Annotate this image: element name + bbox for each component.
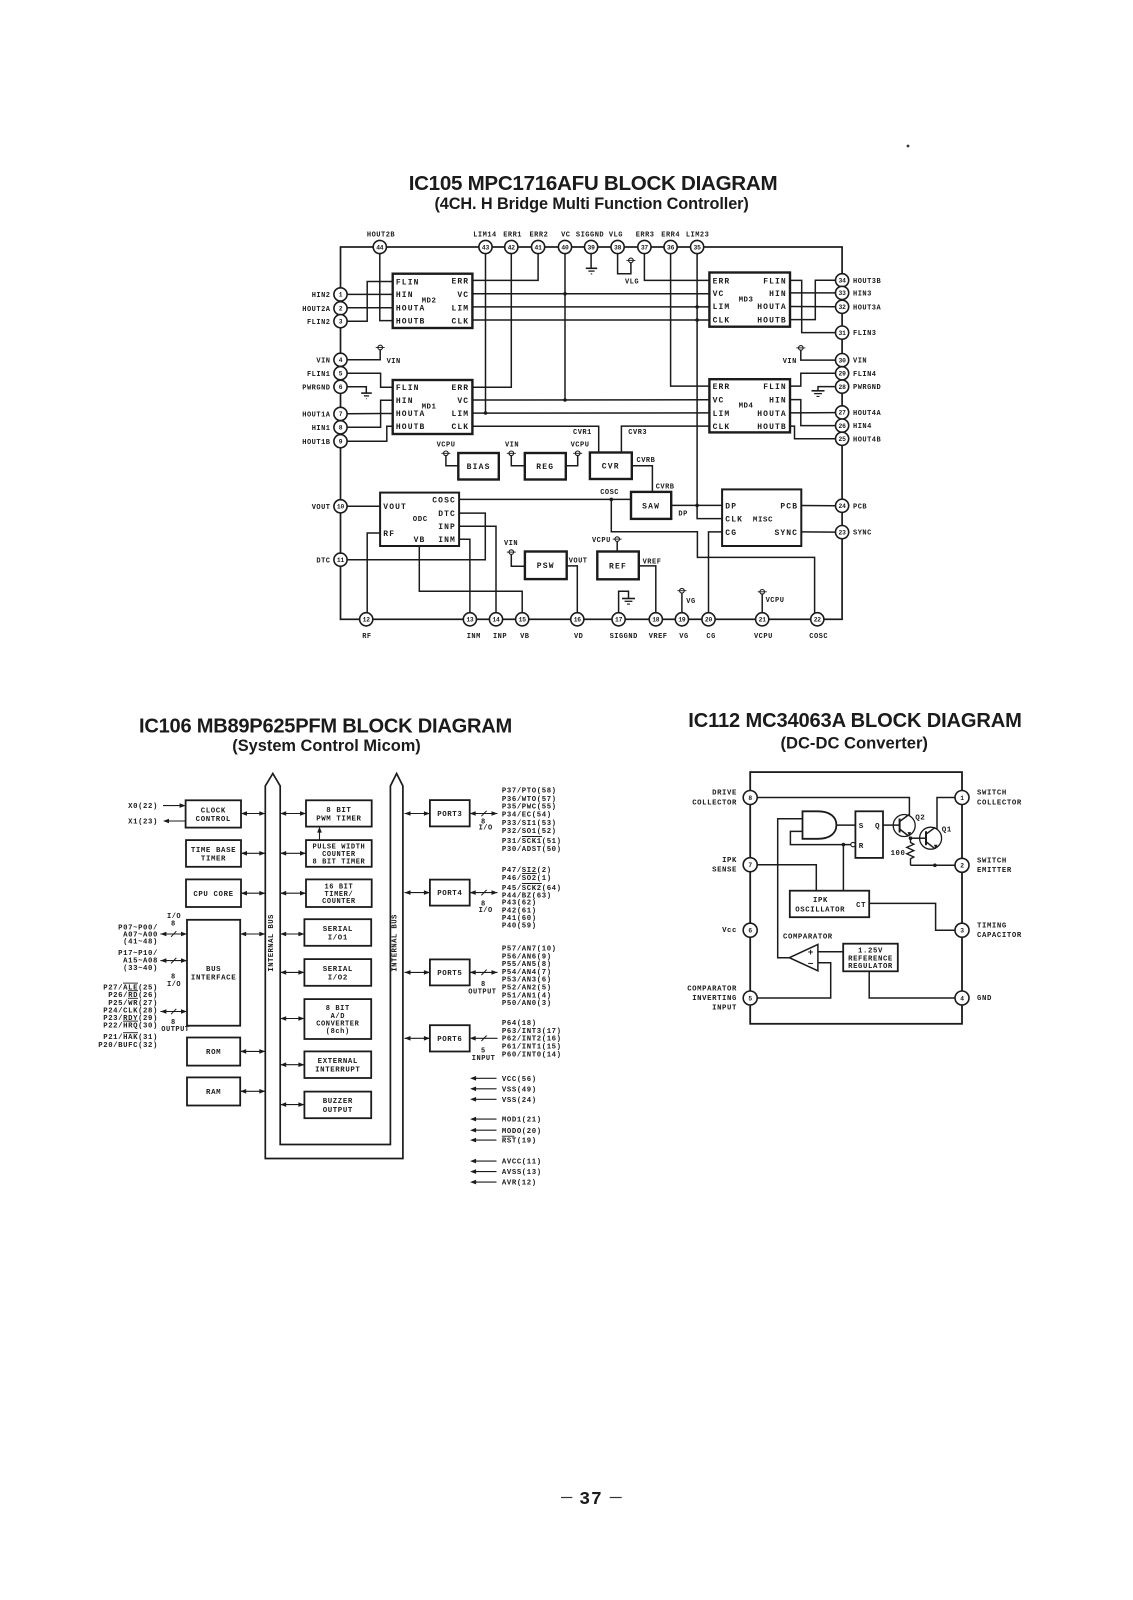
svg-text:PORT4: PORT4	[437, 890, 462, 898]
junction LIM14	[484, 411, 488, 415]
wire MD1.CLK-CVR (CVR1)	[472, 426, 598, 452]
svg-text:FLIN3: FLIN3	[853, 330, 877, 338]
supply pin AVR(12)	[470, 1180, 537, 1188]
svg-text:VLG: VLG	[609, 232, 623, 240]
pin 10 (VOUT)	[312, 500, 347, 513]
ground pin6 PWRGND	[347, 387, 372, 399]
wire pin5-MD1.FLIN	[347, 373, 393, 387]
block TIME BASE TIMER	[186, 840, 241, 867]
svg-text:OUTPUT: OUTPUT	[468, 989, 496, 997]
svg-text:16: 16	[574, 617, 582, 624]
svg-text:EMITTER: EMITTER	[977, 867, 1012, 875]
svg-text:12: 12	[363, 617, 371, 624]
pin label P54/AN4(7)	[502, 969, 552, 977]
block SAW	[631, 492, 671, 519]
block PORT4	[430, 880, 470, 906]
svg-text:2: 2	[339, 306, 343, 313]
svg-text:SIGGND: SIGGND	[576, 232, 604, 240]
svg-text:HIN4: HIN4	[853, 423, 872, 431]
svg-text:44: 44	[376, 244, 384, 251]
pin label P45/SCK2(64)	[502, 884, 562, 894]
svg-text:ODC: ODC	[413, 516, 428, 524]
svg-text:MODO(20): MODO(20)	[502, 1128, 542, 1136]
svg-text:P61/INT1(15): P61/INT1(15)	[502, 1044, 562, 1052]
wire MD3.FLIN-pin31	[790, 280, 836, 332]
svg-text:PWM TIMER: PWM TIMER	[316, 815, 361, 823]
junction VC/MD1	[563, 398, 567, 402]
arrow PORT5 io	[468, 970, 497, 997]
pin 37 (ERR3)	[636, 232, 655, 254]
wire VC bus MD1-MD4	[472, 399, 709, 401]
wire CLK bus MD2-MD3	[472, 319, 709, 321]
svg-text:CVR1: CVR1	[573, 429, 592, 437]
svg-text:6: 6	[339, 384, 343, 391]
power VCPU at BIAS	[437, 441, 459, 465]
arrow bus-PULSE	[280, 851, 306, 856]
wire MD4.FLIN-pin29	[790, 373, 836, 386]
svg-text:HOUTB: HOUTB	[396, 318, 426, 327]
pin 16 (VD)	[571, 613, 584, 641]
pin label P42(61)	[502, 907, 537, 915]
pin 12 (RF)	[360, 613, 373, 641]
svg-text:IC105 MPC1716AFU BLOCK DIAGRAM: IC105 MPC1716AFU BLOCK DIAGRAM	[409, 172, 778, 195]
wire comparator plus - reference	[818, 951, 843, 953]
svg-text:HOUTB: HOUTB	[757, 423, 787, 432]
block PORT5	[430, 959, 470, 985]
block PORT3	[430, 800, 470, 826]
pin label P55/AN5(8)	[502, 961, 552, 969]
resistor 100	[891, 838, 914, 865]
svg-text:I/O: I/O	[167, 981, 181, 989]
svg-text:VLG: VLG	[625, 279, 639, 287]
arrow PORT4 io	[470, 890, 498, 915]
svg-text:(41~48): (41~48)	[123, 938, 158, 946]
svg-text:39: 39	[588, 244, 596, 251]
arrow bus-EXTINT	[280, 1062, 304, 1067]
pin 31 (FLIN3)	[836, 326, 877, 339]
svg-text:CLOCK: CLOCK	[201, 807, 226, 815]
svg-text:ERR: ERR	[713, 383, 731, 392]
block SERIAL I/O2	[304, 959, 371, 986]
svg-text:CPU CORE: CPU CORE	[193, 891, 233, 899]
pin 5 (FLIN1)	[307, 367, 347, 380]
pin label P35/PWC(55)	[502, 803, 557, 811]
block ROM	[187, 1038, 240, 1066]
pin label P50/AN0(3)	[502, 1000, 552, 1008]
svg-text:DRIVE: DRIVE	[712, 790, 737, 798]
pin 6 (Vcc)	[722, 923, 757, 937]
wire ODC.VB-pin15	[419, 546, 522, 613]
svg-text:ERR4: ERR4	[661, 232, 680, 240]
pin label P61/INT1(15)	[502, 1044, 562, 1052]
svg-text:FLIN4: FLIN4	[853, 371, 877, 379]
svg-text:(8ch): (8ch)	[326, 1028, 350, 1036]
svg-text:29: 29	[839, 371, 847, 378]
wire COSC to pin22	[611, 499, 814, 612]
wire R-pin2	[911, 864, 956, 866]
svg-text:P64(18): P64(18)	[502, 1020, 537, 1028]
svg-text:HOUTA: HOUTA	[757, 410, 787, 419]
arrow ROM-bus	[240, 1049, 265, 1054]
svg-text:18: 18	[652, 617, 660, 624]
svg-text:CONTROL: CONTROL	[196, 816, 231, 824]
stray page dot	[907, 145, 910, 148]
block BUZZER OUTPUT	[304, 1092, 371, 1119]
svg-text:P22/HRQ(30): P22/HRQ(30)	[103, 1023, 158, 1031]
svg-text:HOUTA: HOUTA	[396, 410, 426, 419]
svg-text:LIM14: LIM14	[473, 232, 497, 240]
power VCPU at REF	[592, 537, 622, 552]
wire MD4.CLK-CVR (CVR3)	[621, 426, 709, 452]
svg-text:CG: CG	[725, 529, 737, 538]
svg-text:ERR1: ERR1	[503, 232, 522, 240]
svg-text:FLIN: FLIN	[763, 277, 787, 286]
pin 1 (SWITCH COLLECTOR)	[955, 790, 1022, 808]
svg-text:8: 8	[339, 425, 343, 432]
svg-text:INPUT: INPUT	[472, 1055, 496, 1063]
wire AND in2 - R node	[790, 831, 851, 844]
svg-text:MD1: MD1	[422, 404, 437, 412]
svg-text:PWRGND: PWRGND	[302, 384, 330, 392]
pin label P23/RDY(29)	[103, 1015, 158, 1023]
arrow bus-AD	[280, 1016, 304, 1021]
svg-text:34: 34	[839, 278, 847, 285]
block MD2	[393, 274, 473, 328]
svg-text:VB: VB	[520, 633, 530, 641]
block RAM	[187, 1077, 240, 1105]
svg-text:19: 19	[678, 617, 686, 624]
svg-text:100: 100	[891, 850, 906, 858]
pin label P43(62)	[502, 900, 537, 908]
block SERIAL I/O1	[304, 919, 371, 946]
svg-text:31: 31	[839, 330, 847, 337]
junction VC/MD2	[563, 292, 567, 296]
svg-text:VG: VG	[686, 598, 695, 606]
internal bus towers	[265, 774, 403, 1159]
pin 28 (PWRGND)	[836, 380, 882, 393]
ground pin39 SIGGND	[586, 254, 597, 274]
svg-text:4: 4	[960, 995, 964, 1002]
svg-text:14: 14	[492, 617, 500, 624]
pin label P22/HRQ(30)	[103, 1021, 158, 1031]
pin label P33/SI1(53)	[502, 820, 557, 828]
svg-text:5: 5	[748, 995, 752, 1002]
junction R node	[842, 843, 846, 847]
wire pin7-MD1.HOUTA	[347, 413, 393, 415]
pin label P53/AN3(6)	[502, 977, 552, 985]
svg-text:I/O: I/O	[479, 825, 493, 833]
pin label P41(60)	[502, 915, 537, 923]
wire MD3.HIN-pin33	[790, 292, 836, 294]
wire pin36-MD4.ERR	[671, 254, 710, 387]
wire MD4.HIN-pin26	[790, 400, 836, 426]
pin label P44/BZ(63)	[502, 893, 552, 901]
svg-text:PORT3: PORT3	[437, 811, 462, 819]
svg-text:13: 13	[466, 617, 474, 624]
pin 39 (SIGGND)	[576, 232, 604, 254]
SR latch	[851, 811, 883, 858]
svg-text:1.25V: 1.25V	[858, 948, 883, 956]
pin label P47/SI2(2)	[502, 867, 552, 875]
svg-text:VC: VC	[457, 291, 469, 300]
pin 22 (COSC)	[809, 613, 828, 641]
arrow PORT3 io	[470, 811, 498, 833]
wire pin10-ODC.VOUT	[347, 505, 380, 507]
svg-text:2: 2	[960, 863, 964, 870]
svg-text:INTERNAL BUS: INTERNAL BUS	[392, 914, 400, 972]
wire MD4.HOUTB-pin25	[790, 426, 836, 439]
svg-text:33: 33	[839, 290, 847, 297]
pin 2 (HOUT2A)	[302, 302, 347, 315]
pin 38 (VLG)	[609, 232, 624, 254]
wire LIM bus MD1-MD4	[472, 412, 709, 414]
svg-text:VSS(49): VSS(49)	[502, 1086, 537, 1094]
svg-text:RAM: RAM	[206, 1089, 221, 1097]
wire AND out - S	[836, 824, 855, 826]
svg-text:VCPU: VCPU	[766, 597, 785, 605]
svg-text:FLIN: FLIN	[396, 278, 420, 287]
svg-text:VCPU: VCPU	[571, 441, 590, 449]
svg-text:VC: VC	[713, 290, 725, 299]
svg-text:IPK: IPK	[722, 857, 737, 865]
wire Q - Q2 base	[883, 824, 893, 826]
pin label P46/SO2(1)	[502, 874, 552, 884]
svg-text:HOUT4A: HOUT4A	[853, 410, 882, 418]
svg-text:VC: VC	[457, 397, 469, 406]
arrow bus-PORT4	[405, 890, 430, 895]
pin 3 (TIMING CAPACITOR)	[955, 922, 1022, 940]
wire MD3.HOUTB-pin34	[790, 280, 836, 319]
pin label P31/SCK1(51)	[502, 837, 562, 847]
svg-text:VC: VC	[561, 232, 570, 240]
svg-text:REG: REG	[536, 463, 554, 472]
svg-text:CLK: CLK	[725, 516, 743, 525]
svg-text:HOUTA: HOUTA	[757, 303, 787, 312]
supply pin MODO(20)	[470, 1128, 542, 1136]
svg-text:17: 17	[615, 617, 623, 624]
svg-text:P52/AN2(5): P52/AN2(5)	[502, 985, 552, 993]
svg-text:INM: INM	[467, 633, 481, 641]
port bus P27-P20 control	[160, 1009, 189, 1034]
svg-text:VG: VG	[679, 633, 688, 641]
svg-text:Q2: Q2	[915, 815, 925, 823]
svg-text:OSCILLATOR: OSCILLATOR	[795, 907, 845, 915]
arrow bus-PORT5	[405, 970, 430, 975]
wire pin37-MD3.ERR	[644, 254, 709, 281]
IC112 outer border	[750, 772, 962, 1024]
svg-text:SYNC: SYNC	[774, 529, 798, 538]
wire Q2 emitter node	[911, 837, 920, 839]
svg-text:10: 10	[337, 504, 345, 511]
svg-text:VIN: VIN	[504, 540, 518, 548]
svg-text:ERR: ERR	[713, 277, 731, 286]
svg-text:PCB: PCB	[780, 502, 798, 511]
pin label P62/INT2(16)	[502, 1036, 562, 1044]
junction COSC	[610, 498, 614, 502]
svg-text:P46/SO2(1): P46/SO2(1)	[502, 875, 552, 883]
svg-text:DTC: DTC	[438, 510, 456, 519]
IC105 outer border	[341, 247, 843, 619]
svg-text:PSW: PSW	[537, 562, 555, 571]
block REF	[597, 552, 639, 580]
wire VC bus MD2-MD3	[472, 293, 709, 295]
pin 44 (HOUT2B)	[367, 232, 396, 254]
wire CVR-SAW (CVRB)	[632, 457, 675, 492]
pin 26 (HIN4)	[836, 419, 872, 432]
arrow TIMEBASE-bus	[241, 851, 265, 856]
svg-text:42: 42	[508, 244, 516, 251]
svg-text:RF: RF	[362, 633, 371, 641]
ground pin17 SIGGND	[619, 591, 635, 613]
svg-text:15: 15	[519, 617, 527, 624]
wire ODC.DTC-pin11	[347, 513, 485, 560]
svg-text:8: 8	[171, 920, 176, 928]
svg-text:HOUTA: HOUTA	[396, 305, 426, 314]
svg-text:COUNTER: COUNTER	[322, 898, 356, 906]
wire pin1-Q1 collector	[937, 798, 955, 830]
AND gate U1	[803, 811, 837, 839]
svg-text:INTERNAL BUS: INTERNAL BUS	[268, 914, 276, 972]
block IPK OSCILLATOR	[790, 891, 869, 918]
svg-text:4: 4	[339, 357, 343, 364]
pin label P20/BUFC(32)	[98, 1042, 158, 1050]
svg-text:27: 27	[839, 410, 847, 417]
svg-text:MD2: MD2	[422, 298, 437, 306]
svg-text:30: 30	[839, 357, 847, 364]
pin 19 (VG)	[675, 613, 688, 641]
pin 4 (VIN)	[316, 353, 347, 366]
pin 29 (FLIN4)	[836, 367, 877, 380]
svg-text:INPUT: INPUT	[712, 1005, 737, 1013]
pin 23 (SYNC)	[836, 526, 872, 539]
block ODC	[380, 493, 459, 546]
supply pin AVCC(11)	[470, 1159, 542, 1167]
svg-text:TIMING: TIMING	[977, 922, 1007, 930]
port bus P07-P00	[118, 913, 187, 946]
svg-text:SERIAL: SERIAL	[323, 966, 353, 974]
svg-text:P37/PTO(58): P37/PTO(58)	[502, 788, 557, 796]
pin label P64(18)	[502, 1020, 537, 1028]
pin 41 (ERR2)	[529, 232, 548, 254]
pin label P36/WTO(57)	[502, 796, 557, 804]
wire REF.VREF-pin18	[639, 559, 662, 613]
wire ODC.INP-pin14	[459, 526, 496, 612]
svg-text:OUTPUT: OUTPUT	[323, 1107, 353, 1115]
arrow bus-PORT3	[405, 811, 430, 816]
svg-text:FLIN1: FLIN1	[307, 371, 331, 379]
svg-text:CVR: CVR	[602, 463, 620, 472]
svg-text:HIN3: HIN3	[853, 291, 872, 299]
svg-text:VB: VB	[414, 536, 426, 545]
wire MD4.HOUTA-pin27	[790, 412, 836, 414]
svg-text:VIN: VIN	[853, 358, 867, 366]
arrow PORT6 io	[470, 1036, 498, 1064]
block EXTERNAL INTERRUPT	[304, 1051, 371, 1078]
svg-text:8 BIT: 8 BIT	[326, 807, 351, 815]
svg-text:HIN: HIN	[769, 290, 787, 299]
junction Q1 emitter	[933, 864, 937, 868]
pin label P60/INT0(14)	[502, 1052, 562, 1060]
svg-text:HOUT3B: HOUT3B	[853, 278, 882, 286]
svg-text:VIN: VIN	[505, 441, 519, 449]
svg-text:P41(60): P41(60)	[502, 915, 537, 923]
title IC105	[409, 172, 778, 213]
block PULSE WIDTH COUNTER 8 BIT TIMER	[306, 840, 372, 867]
svg-text:X0(22): X0(22)	[128, 803, 158, 811]
svg-text:P60/INT0(14): P60/INT0(14)	[502, 1052, 562, 1060]
svg-text:20: 20	[705, 617, 713, 624]
wire MISC.PCB-pin24	[801, 505, 835, 507]
svg-text:VC: VC	[713, 397, 725, 406]
pin 40 (VC)	[558, 232, 571, 254]
pin label P57/AN7(10)	[502, 945, 557, 953]
svg-text:INM: INM	[438, 536, 456, 545]
svg-text:DP: DP	[678, 510, 687, 518]
power VLG pin38	[618, 254, 639, 287]
svg-text:MD4: MD4	[739, 403, 754, 411]
svg-text:IPK: IPK	[813, 897, 828, 905]
svg-text:RST(19): RST(19)	[502, 1138, 537, 1146]
pin X1(23)	[128, 819, 185, 827]
svg-text:1: 1	[339, 292, 343, 299]
svg-text:PCB: PCB	[853, 503, 867, 511]
pin 17 (SIGGND)	[610, 613, 638, 641]
svg-text:HIN1: HIN1	[312, 425, 331, 433]
svg-text:VOUT: VOUT	[569, 558, 588, 566]
svg-text:CT: CT	[856, 902, 866, 910]
svg-text:FLIN2: FLIN2	[307, 319, 331, 327]
wire ODC.INM-pin13	[459, 539, 470, 612]
svg-text:28: 28	[839, 384, 847, 391]
svg-text:COLLECTOR: COLLECTOR	[692, 799, 737, 807]
svg-text:SYNC: SYNC	[853, 530, 872, 538]
pin 8 (DRIVE COLLECTOR)	[692, 790, 757, 808]
supply pin AVSS(13)	[470, 1169, 542, 1177]
svg-text:P62/INT2(16): P62/INT2(16)	[502, 1036, 562, 1044]
supply pin VSS(24)	[470, 1097, 537, 1105]
svg-text:11: 11	[337, 557, 345, 564]
junction Q2e/Q1b/R	[909, 836, 913, 840]
block MD3	[709, 273, 790, 327]
pin label P40(59)	[502, 923, 537, 931]
power VIN at REG	[505, 441, 525, 465]
pin 1 (HIN2)	[312, 288, 347, 301]
svg-text:VCPU: VCPU	[437, 441, 456, 449]
svg-text:HOUT2B: HOUT2B	[367, 232, 396, 240]
svg-text:ERR: ERR	[451, 384, 469, 393]
block 8 BIT A/D CONVERTER (8ch)	[304, 999, 371, 1039]
pin 21 (VCPU)	[754, 613, 773, 641]
svg-text:FLIN: FLIN	[396, 384, 420, 393]
arrow bus-PWM	[280, 811, 306, 816]
wire COSC row ODC-SAW	[459, 489, 631, 499]
svg-text:22: 22	[814, 617, 822, 624]
svg-text:DP: DP	[725, 502, 737, 511]
pin X0(22)	[128, 803, 185, 811]
power VIN at PSW	[504, 540, 525, 566]
svg-text:HIN2: HIN2	[312, 292, 331, 300]
svg-text:P30/ADST(50): P30/ADST(50)	[502, 846, 562, 854]
svg-text:HIN: HIN	[396, 291, 414, 300]
pin 4 (GND)	[955, 991, 992, 1005]
pin 25 (HOUT4B)	[836, 432, 882, 445]
svg-text:HOUT4B: HOUT4B	[853, 436, 882, 444]
wire MISC.SYNC-pin23	[801, 531, 835, 533]
pin 33 (HIN3)	[836, 286, 872, 299]
svg-text:LIM: LIM	[451, 305, 469, 314]
svg-text:40: 40	[561, 244, 569, 251]
svg-text:X1(23): X1(23)	[128, 819, 158, 827]
